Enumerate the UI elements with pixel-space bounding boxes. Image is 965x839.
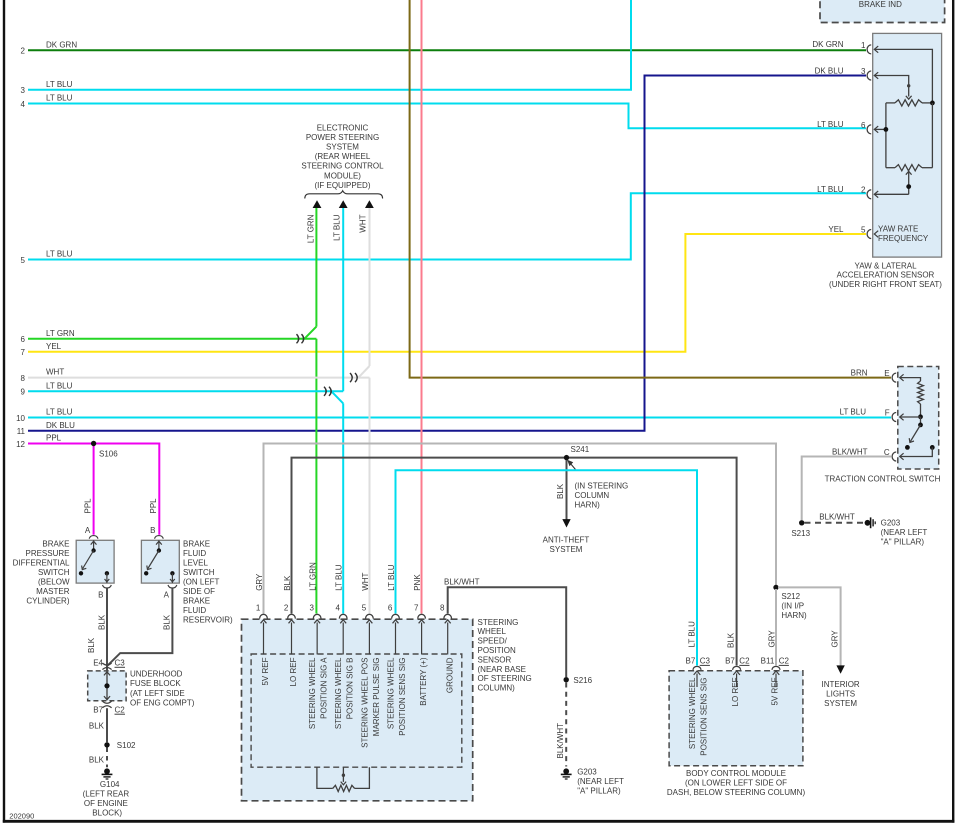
svg-text:FUSE BLOCK: FUSE BLOCK	[130, 679, 181, 688]
wire BLK/WHT from sensor pin 8 to S216	[448, 587, 567, 677]
svg-text:SYSTEM: SYSTEM	[326, 143, 359, 152]
traction control switch pin E	[892, 373, 896, 382]
BCM pin B7/C3 internal arrow	[696, 674, 698, 688]
svg-text:STEERING WHEEL: STEERING WHEEL	[308, 657, 317, 729]
svg-text:YAW RATE: YAW RATE	[878, 225, 918, 234]
svg-text:LT BLU: LT BLU	[688, 621, 697, 648]
svg-text:COLUMN): COLUMN)	[478, 684, 516, 693]
traction switch node F	[918, 414, 923, 419]
svg-text:BODY CONTROL MODULE: BODY CONTROL MODULE	[686, 769, 786, 778]
svg-text:7: 7	[21, 348, 26, 357]
svg-text:202090: 202090	[9, 811, 34, 820]
svg-text:ELECTRONIC: ELECTRONIC	[317, 123, 369, 132]
sensor pin 7 internal arrow	[421, 623, 423, 655]
yaw sensor resistor upper	[886, 102, 895, 104]
svg-text:C2: C2	[779, 656, 790, 665]
svg-text:S213: S213	[791, 529, 810, 538]
sensor pin 8 internal arrow	[447, 623, 449, 655]
sensor pin 2 internal arrow	[291, 623, 293, 655]
svg-text:FREQUENCY: FREQUENCY	[878, 234, 929, 243]
svg-text:POSITION: POSITION	[478, 646, 516, 655]
connector E4/C3	[102, 663, 111, 665]
svg-text:C2: C2	[739, 656, 750, 665]
wire 7 YEL to yaw sensor pin 5	[28, 234, 866, 352]
svg-text:DK BLU: DK BLU	[46, 421, 75, 430]
svg-text:LT BLU: LT BLU	[46, 94, 73, 103]
sensor resistor wiper	[342, 767, 344, 782]
brake pressure differential switch bottom connector	[103, 585, 112, 588]
svg-text:4: 4	[336, 603, 341, 612]
wire 12 PPL to brake switches	[28, 444, 159, 535]
svg-text:(NEAR BASE: (NEAR BASE	[478, 665, 526, 674]
yaw sensor pin 2	[867, 190, 871, 199]
svg-text:LT BLU: LT BLU	[335, 564, 344, 591]
wire BLK from brake fluid level switch	[107, 589, 173, 667]
wire GRY from S212 to BCM	[775, 589, 777, 666]
body control module box	[669, 671, 803, 766]
splice S213	[799, 520, 804, 525]
svg-text:S212: S212	[781, 592, 800, 601]
svg-text:(IF EQUIPPED): (IF EQUIPPED)	[314, 181, 370, 190]
svg-text:BLK/WHT: BLK/WHT	[819, 512, 855, 521]
svg-text:INTERIOR: INTERIOR	[821, 680, 859, 689]
svg-text:CYLINDER): CYLINDER)	[26, 596, 69, 605]
svg-text:(IN STEERING: (IN STEERING	[575, 482, 629, 491]
svg-text:STEERING CONTROL: STEERING CONTROL	[301, 162, 384, 171]
svg-text:9: 9	[21, 388, 26, 397]
brake fluid level switch box	[141, 540, 179, 583]
svg-text:(REAR WHEEL: (REAR WHEEL	[315, 152, 371, 161]
wire GRY from sensor pin 1 to S212	[264, 444, 777, 614]
traction switch arm	[920, 417, 922, 425]
svg-text:BLK/WHT: BLK/WHT	[556, 723, 565, 759]
svg-text:HARN): HARN)	[575, 501, 601, 510]
svg-text:1: 1	[861, 41, 866, 50]
svg-text:ACCELERATION SENSOR: ACCELERATION SENSOR	[837, 271, 935, 280]
svg-text:WHEEL: WHEEL	[478, 627, 507, 636]
svg-text:STEERING WHEEL POS: STEERING WHEEL POS	[360, 658, 369, 748]
wire 2 DK GRN to yaw sensor pin 1	[28, 49, 866, 51]
svg-text:C2: C2	[115, 705, 126, 714]
svg-text:A: A	[164, 591, 170, 600]
svg-text:BLK: BLK	[97, 614, 106, 630]
svg-text:2: 2	[21, 47, 26, 56]
wire 9 LT BLU to EPS and sensor pin 4	[28, 390, 343, 392]
svg-text:G104: G104	[100, 780, 120, 789]
svg-text:BLK: BLK	[89, 756, 105, 765]
wire BLK dashed to G104	[106, 748, 108, 768]
svg-text:S216: S216	[573, 676, 592, 685]
steering wheel speed/position sensor box	[242, 619, 473, 801]
sensor pin 4 internal arrow	[342, 623, 344, 655]
sensor connector pin 8	[444, 614, 452, 618]
sensor connector pin 3	[313, 614, 321, 618]
sensor connector pin 6	[392, 614, 400, 618]
svg-text:3: 3	[861, 67, 866, 76]
wire 11 DK BLU to yaw sensor pin 3	[28, 76, 866, 431]
yaw sensor pin 5	[867, 230, 871, 239]
svg-text:LT BLU: LT BLU	[817, 185, 844, 194]
svg-text:SIDE OF: SIDE OF	[183, 587, 215, 596]
svg-text:DK GRN: DK GRN	[812, 40, 843, 49]
svg-text:E: E	[884, 369, 889, 378]
wire 10 LT BLU to traction control switch pin F	[28, 417, 891, 419]
brake indicator box	[820, 0, 945, 23]
BCM pin B7/C3	[693, 666, 701, 670]
svg-text:2: 2	[861, 186, 866, 195]
svg-text:POWER STEERING: POWER STEERING	[306, 133, 379, 142]
arrow to S241	[569, 462, 576, 470]
sensor connector pin 7	[418, 614, 426, 618]
yaw sensor pin 1	[867, 45, 871, 54]
svg-text:8: 8	[21, 374, 26, 383]
wire 4 LT BLU to yaw sensor pin 6	[28, 104, 866, 129]
connector B7/C2	[102, 701, 111, 703]
svg-text:DIFFERENTIAL: DIFFERENTIAL	[13, 558, 70, 567]
wire LT BLU from sensor pin 6 to BCM	[396, 470, 698, 665]
svg-text:PNK: PNK	[413, 574, 422, 591]
wire BLK below fuse block	[106, 708, 108, 742]
svg-text:STEERING WHEEL: STEERING WHEEL	[688, 677, 697, 749]
svg-text:LT BLU: LT BLU	[817, 120, 844, 129]
wire 3 LT BLU to top	[28, 0, 631, 90]
svg-text:SENSOR: SENSOR	[478, 655, 512, 664]
svg-text:PPL: PPL	[83, 498, 92, 514]
svg-text:PRESSURE: PRESSURE	[25, 549, 69, 558]
svg-text:LEVEL: LEVEL	[183, 558, 208, 567]
svg-text:POSITION SENS SIG: POSITION SENS SIG	[699, 678, 708, 756]
svg-text:DASH, BELOW STEERING COLUMN): DASH, BELOW STEERING COLUMN)	[667, 788, 806, 797]
svg-text:E4: E4	[93, 659, 103, 668]
wire 5 LT BLU to yaw sensor pin 2	[28, 193, 866, 259]
svg-text:3: 3	[309, 603, 314, 612]
yaw sensor resistor lower	[886, 167, 895, 169]
svg-text:UNDERHOOD: UNDERHOOD	[130, 670, 183, 679]
sensor pin 5 internal arrow	[368, 623, 370, 655]
svg-text:BRAKE: BRAKE	[183, 539, 210, 548]
svg-text:SWITCH: SWITCH	[38, 568, 70, 577]
svg-text:BLK/WHT: BLK/WHT	[832, 447, 868, 456]
ground G203 lower	[563, 768, 569, 774]
traction control switch box	[898, 367, 939, 470]
svg-text:ANTI-THEFT: ANTI-THEFT	[543, 536, 590, 545]
svg-text:(ON LEFT: (ON LEFT	[183, 577, 220, 586]
splice S241	[564, 455, 569, 460]
sensor connector pin 4	[339, 614, 347, 618]
svg-text:11: 11	[17, 427, 26, 436]
svg-text:G203: G203	[881, 519, 901, 528]
svg-text:5: 5	[21, 256, 26, 265]
brake pressure differential switch box	[76, 540, 114, 583]
svg-text:6: 6	[21, 335, 26, 344]
svg-text:SYSTEM: SYSTEM	[550, 545, 583, 554]
svg-text:LO REF: LO REF	[289, 657, 298, 686]
svg-text:BLOCK): BLOCK)	[92, 809, 122, 818]
svg-text:(LEFT REAR: (LEFT REAR	[83, 790, 130, 799]
svg-text:WHT: WHT	[46, 368, 64, 377]
svg-text:LO REF: LO REF	[731, 677, 740, 706]
svg-text:FLUID: FLUID	[183, 549, 206, 558]
svg-text:COLUMN: COLUMN	[575, 491, 610, 500]
sensor connector pin 2	[288, 614, 296, 618]
svg-text:C3: C3	[700, 656, 711, 665]
svg-text:RESERVOIR): RESERVOIR)	[183, 615, 233, 624]
traction switch resistor	[900, 378, 921, 381]
svg-text:BLK: BLK	[89, 722, 105, 731]
svg-text:HARN): HARN)	[781, 611, 807, 620]
BCM pin B11/C2 internal arrow	[775, 674, 777, 688]
yaw sensor internal wiring	[874, 49, 932, 103]
svg-text:B7: B7	[93, 705, 103, 714]
svg-text:TRACTION CONTROL SWITCH: TRACTION CONTROL SWITCH	[825, 475, 941, 484]
svg-text:LT GRN: LT GRN	[309, 562, 318, 591]
svg-text:8: 8	[440, 603, 445, 612]
svg-text:S241: S241	[571, 445, 590, 454]
BCM pin B7/C2 internal arrow	[736, 674, 738, 688]
svg-text:SWITCH: SWITCH	[183, 568, 215, 577]
svg-text:A: A	[85, 526, 91, 535]
svg-text:MARKER PULSE SIG: MARKER PULSE SIG	[372, 658, 381, 737]
svg-text:BLK: BLK	[556, 483, 565, 499]
svg-text:B11: B11	[761, 656, 775, 665]
svg-text:S102: S102	[117, 741, 136, 750]
wire BLK/WHT from traction switch to S213	[802, 457, 891, 521]
brake pressure differential switch internals	[93, 540, 95, 548]
svg-text:C3: C3	[115, 659, 126, 668]
underhood fuse block box	[88, 671, 126, 701]
wire BLK from sensor pin 2 to S241 and BCM	[292, 458, 737, 666]
svg-text:"A" PILLAR): "A" PILLAR)	[577, 787, 621, 796]
sensor pin 6 internal arrow	[395, 623, 397, 655]
yaw sensor wiper arrow	[908, 172, 910, 195]
wire GRY to interior lights	[778, 587, 841, 666]
sensor pin 3 internal arrow	[316, 623, 318, 655]
svg-text:7: 7	[414, 603, 419, 612]
svg-text:BLK/WHT: BLK/WHT	[444, 577, 480, 586]
svg-text:YAW & LATERAL: YAW & LATERAL	[854, 261, 917, 270]
yaw and lateral acceleration sensor box	[873, 33, 942, 257]
svg-text:5: 5	[362, 603, 367, 612]
wire PNK vertical to sensor pin 7	[421, 0, 423, 614]
svg-text:SYSTEM: SYSTEM	[824, 699, 857, 708]
yaw sensor pin 6	[867, 125, 871, 134]
svg-text:OF ENGINE: OF ENGINE	[84, 799, 128, 808]
svg-text:BRN: BRN	[851, 368, 868, 377]
svg-text:DK GRN: DK GRN	[46, 40, 77, 49]
svg-text:POSITION SIG B: POSITION SIG B	[346, 658, 355, 720]
svg-text:LT GRN: LT GRN	[306, 214, 315, 243]
svg-text:BATTERY (+): BATTERY (+)	[419, 657, 428, 706]
traction control switch pin C	[892, 452, 896, 461]
svg-text:LT BLU: LT BLU	[46, 250, 73, 259]
svg-text:BRAKE: BRAKE	[183, 596, 210, 605]
svg-text:YEL: YEL	[828, 225, 844, 234]
ground G203 right	[865, 520, 871, 526]
svg-text:B: B	[98, 591, 103, 600]
wire BLK to anti-theft system	[566, 460, 568, 520]
svg-text:(AT LEFT SIDE: (AT LEFT SIDE	[130, 689, 185, 698]
interior lights arrow	[836, 665, 844, 673]
svg-text:MODULE): MODULE)	[324, 171, 361, 180]
yaw sensor pin 3	[867, 71, 871, 80]
BCM pin B7/C2	[733, 666, 741, 670]
svg-text:DK BLU: DK BLU	[815, 66, 844, 75]
svg-text:WHT: WHT	[359, 214, 368, 232]
traction control switch pin F	[892, 413, 896, 422]
EPS arrow LT GRN	[313, 200, 322, 208]
wire BLK from brake pressure switch	[106, 589, 108, 671]
svg-text:POSITION SENS SIG: POSITION SENS SIG	[398, 658, 407, 736]
svg-text:LT BLU: LT BLU	[840, 408, 867, 417]
svg-text:S106: S106	[99, 449, 118, 458]
sensor internal resistor	[317, 767, 333, 788]
svg-text:FLUID: FLUID	[183, 606, 206, 615]
wire 8 WHT to EPS and sensor pin 5	[28, 377, 370, 379]
EPS brace	[305, 191, 383, 199]
svg-text:OF STEERING: OF STEERING	[478, 674, 532, 683]
splice S102	[104, 742, 109, 747]
svg-text:BLK: BLK	[726, 632, 735, 648]
svg-text:6: 6	[861, 121, 866, 130]
splice S212	[773, 585, 778, 590]
svg-text:OF ENG COMPT): OF ENG COMPT)	[130, 698, 195, 707]
svg-text:B7: B7	[686, 656, 696, 665]
splice S216	[564, 677, 569, 682]
svg-text:6: 6	[388, 603, 393, 612]
svg-text:PPL: PPL	[149, 498, 158, 514]
svg-text:(UNDER RIGHT FRONT SEAT): (UNDER RIGHT FRONT SEAT)	[829, 280, 942, 289]
svg-text:(IN I/P: (IN I/P	[781, 602, 804, 611]
svg-text:WHT: WHT	[361, 572, 370, 590]
svg-text:MASTER: MASTER	[36, 587, 70, 596]
brake fluid level switch bottom connector	[168, 585, 177, 588]
svg-text:LIGHTS: LIGHTS	[826, 689, 855, 698]
wire BRN vertical to traction control switch pin E	[410, 0, 891, 378]
steering wheel sensor inner module box	[251, 654, 462, 767]
wire 6 LT GRN to EPS and sensor pin 3	[28, 338, 316, 340]
svg-text:POSITION SIG A: POSITION SIG A	[320, 657, 329, 719]
svg-text:B: B	[150, 526, 155, 535]
brake fluid level switch connector	[155, 536, 164, 539]
svg-text:BLK: BLK	[163, 614, 172, 630]
svg-text:BRAKE: BRAKE	[42, 539, 69, 548]
brake fluid level switch internals	[158, 540, 160, 548]
svg-text:BLK: BLK	[87, 637, 96, 653]
svg-text:"A" PILLAR): "A" PILLAR)	[881, 538, 925, 547]
svg-text:1: 1	[256, 603, 261, 612]
ground G104	[104, 768, 110, 774]
svg-text:LT GRN: LT GRN	[46, 329, 75, 338]
svg-text:(NEAR LEFT: (NEAR LEFT	[577, 777, 624, 786]
svg-text:GRY: GRY	[768, 630, 777, 648]
svg-text:12: 12	[16, 440, 25, 449]
svg-text:GRY: GRY	[831, 630, 840, 648]
splice S106	[91, 441, 96, 446]
svg-text:LT BLU: LT BLU	[46, 381, 73, 390]
EPS arrow LT BLU	[339, 200, 348, 208]
svg-text:YEL: YEL	[46, 342, 62, 351]
svg-text:PPL: PPL	[46, 434, 62, 443]
sensor connector pin 1	[260, 614, 268, 618]
svg-text:LT BLU: LT BLU	[333, 214, 342, 241]
fuse block internal	[106, 672, 108, 701]
EPS arrow WHT	[365, 200, 374, 208]
BCM pin B11/C2	[772, 666, 780, 670]
svg-text:SPEED/: SPEED/	[478, 637, 508, 646]
svg-text:LT BLU: LT BLU	[46, 80, 73, 89]
svg-text:5V REF: 5V REF	[771, 677, 780, 705]
sensor connector pin 5	[366, 614, 374, 618]
svg-text:5V REF: 5V REF	[261, 657, 270, 685]
yaw sensor internal node wiring	[885, 103, 887, 168]
svg-text:BRAKE IND: BRAKE IND	[859, 0, 902, 9]
svg-text:5: 5	[861, 225, 866, 234]
svg-text:(BELOW: (BELOW	[38, 577, 70, 586]
brake pressure differential switch connector	[89, 536, 98, 539]
svg-text:GROUND: GROUND	[445, 657, 454, 693]
svg-text:3: 3	[21, 86, 26, 95]
svg-text:LT BLU: LT BLU	[46, 408, 73, 417]
svg-text:STEERING WHEEL: STEERING WHEEL	[387, 657, 396, 729]
svg-text:2: 2	[284, 603, 289, 612]
svg-text:4: 4	[21, 100, 26, 109]
wire BLK/WHT dashed to G203	[805, 522, 864, 524]
svg-text:10: 10	[16, 414, 25, 423]
svg-text:(NEAR LEFT: (NEAR LEFT	[881, 528, 928, 537]
sensor pin 1 internal arrow	[263, 623, 265, 655]
svg-text:G203: G203	[577, 768, 597, 777]
svg-text:F: F	[885, 408, 890, 417]
frame border	[3, 0, 5, 823]
svg-text:STEERING: STEERING	[478, 618, 519, 627]
traction switch contacts	[905, 445, 910, 450]
svg-text:B7: B7	[725, 656, 735, 665]
wire BLK/WHT dashed to G203 lower	[565, 683, 567, 767]
svg-text:STEERING WHEEL: STEERING WHEEL	[334, 657, 343, 729]
svg-text:(ON LOWER LEFT SIDE OF: (ON LOWER LEFT SIDE OF	[685, 778, 787, 787]
